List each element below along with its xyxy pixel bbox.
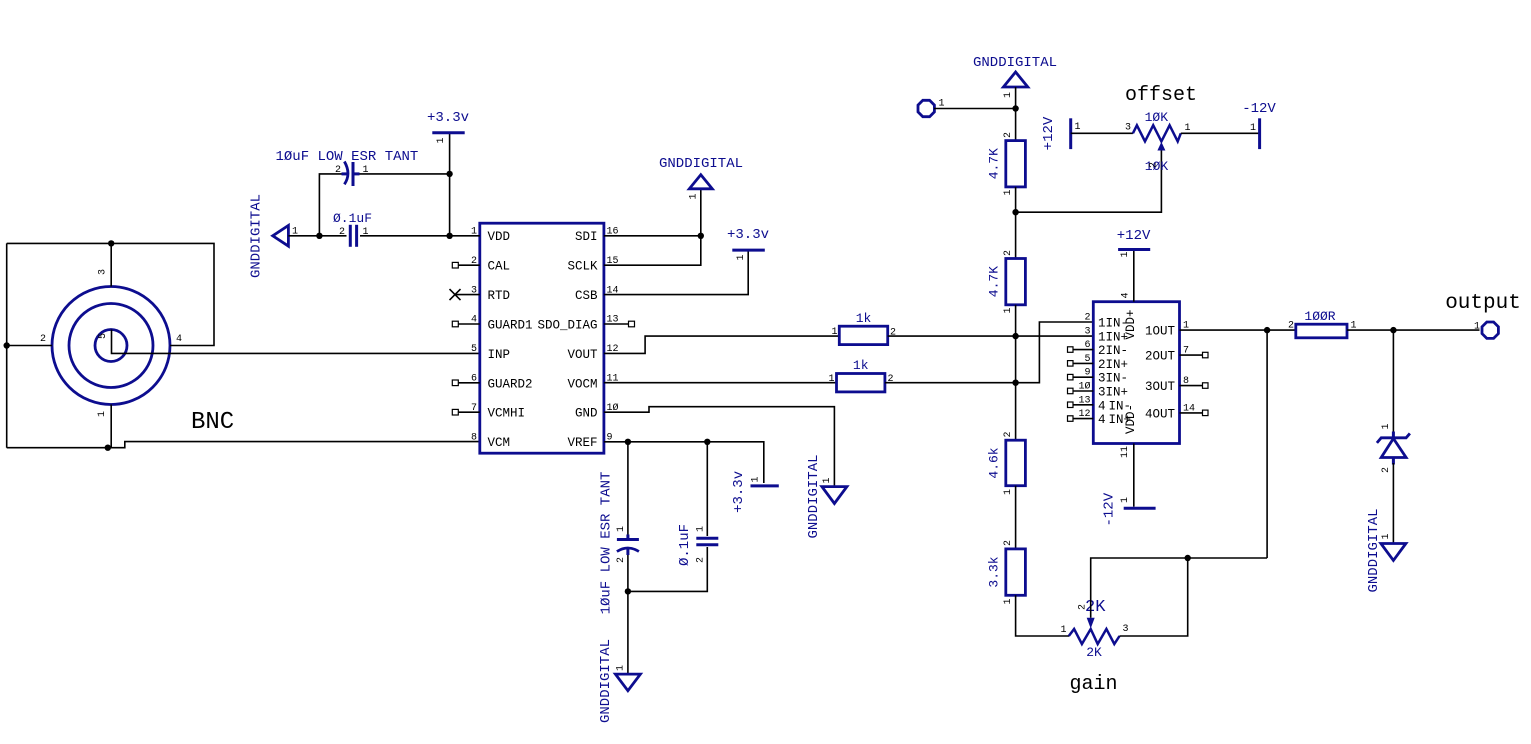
svg-text:GNDDIGITAL: GNDDIGITAL <box>806 454 822 538</box>
wire BNC left shield <box>6 243 8 447</box>
pin 13 SDO_DIAG stub <box>604 321 635 327</box>
svg-text:2: 2 <box>335 165 341 176</box>
svg-text:3IN-: 3IN- <box>1098 372 1128 386</box>
wire BNC bottom to VCM <box>7 442 480 448</box>
node junction zener tap <box>1390 327 1396 333</box>
svg-text:2: 2 <box>696 557 707 563</box>
pin 6 GUARD2 stub <box>452 380 480 386</box>
node junction offset tap <box>1012 209 1018 215</box>
svg-text:1ØuF LOW ESR TANT: 1ØuF LOW ESR TANT <box>599 472 615 615</box>
svg-text:2: 2 <box>1381 467 1392 473</box>
wire +3.3v stem <box>449 133 451 236</box>
svg-text:2: 2 <box>1288 321 1294 332</box>
ground GNDDIGITAL above SDI <box>659 156 743 200</box>
ground GNDDIGITAL left of C2 <box>249 194 299 278</box>
svg-text:VOUT: VOUT <box>567 348 598 362</box>
svg-text:GNDDIGITAL: GNDDIGITAL <box>973 55 1057 71</box>
svg-text:1: 1 <box>736 254 747 260</box>
power +3.3v at CSB <box>727 227 769 261</box>
svg-text:+12V: +12V <box>1041 116 1057 150</box>
svg-text:1ØØR: 1ØØR <box>1304 309 1335 324</box>
wire BNC pin3 <box>110 243 112 286</box>
wire SDI to gnd <box>604 189 701 236</box>
svg-text:1: 1 <box>1120 497 1131 503</box>
svg-text:offset: offset <box>1125 84 1197 107</box>
node junction feedback <box>1264 327 1270 333</box>
svg-text:4.6k: 4.6k <box>987 447 1002 478</box>
svg-text:VDD-: VDD- <box>1124 404 1138 434</box>
svg-text:GUARD1: GUARD1 <box>488 319 533 333</box>
node junction bottom shield <box>105 445 111 451</box>
pin 14 stub <box>1180 410 1209 416</box>
resistor 4.7K upper <box>987 132 1026 196</box>
wire VREF rail <box>604 442 764 483</box>
svg-text:2OUT: 2OUT <box>1145 350 1176 364</box>
svg-text:output: output <box>1445 292 1521 315</box>
svg-text:-12V: -12V <box>1102 492 1118 526</box>
svg-text:5: 5 <box>471 344 477 355</box>
svg-text:3: 3 <box>98 269 109 275</box>
pin 4 GUARD1 stub <box>452 321 480 327</box>
svg-text:2: 2 <box>1003 431 1014 437</box>
svg-text:4.7K: 4.7K <box>987 148 1002 179</box>
node junction gain feedback <box>1185 555 1191 561</box>
svg-text:1: 1 <box>616 665 627 671</box>
wire terminal to ladder <box>934 108 1016 110</box>
ground GNDDIGITAL below zener <box>1366 508 1406 592</box>
svg-text:2: 2 <box>339 227 345 238</box>
wire offset tap to wiper <box>1016 151 1162 213</box>
svg-text:1OUT: 1OUT <box>1145 325 1176 339</box>
wire C1 branch left <box>319 174 342 236</box>
resistor 4.7K lower <box>987 250 1026 314</box>
node junction C1-C2 left <box>316 233 322 239</box>
op-amp U2 body <box>1093 302 1179 444</box>
svg-text:3: 3 <box>1084 326 1090 337</box>
svg-text:1: 1 <box>1120 251 1131 257</box>
svg-text:2: 2 <box>1003 132 1014 138</box>
potentiometer offset 10K <box>1125 110 1191 174</box>
potentiometer gain 2K <box>1060 598 1128 660</box>
svg-text:1: 1 <box>1250 123 1256 134</box>
svg-text:1: 1 <box>1185 123 1191 134</box>
wire BNC pin5 center to INP <box>112 330 480 354</box>
wire 4.6k to 3.3k <box>1015 486 1017 549</box>
wire VOCM to 1k <box>604 382 837 384</box>
node junction terminal <box>1012 105 1018 111</box>
pin 10 stub <box>1068 388 1094 394</box>
wire 100R to output <box>1347 329 1480 331</box>
svg-text:2: 2 <box>616 557 627 563</box>
power -12V right of offset pot <box>1242 101 1276 149</box>
wire CSB to +3.3v <box>604 252 748 295</box>
wire VDD+ stem <box>1133 251 1135 302</box>
svg-text:1: 1 <box>436 137 447 143</box>
svg-text:1: 1 <box>363 165 369 176</box>
svg-text:CSB: CSB <box>575 289 598 303</box>
node junction +3.3v VDD <box>446 233 452 239</box>
svg-text:1: 1 <box>822 477 833 483</box>
power +12V above U2 <box>1117 228 1151 258</box>
svg-text:1: 1 <box>97 411 108 417</box>
svg-text:1ØuF LOW ESR TANT: 1ØuF LOW ESR TANT <box>276 149 419 165</box>
svg-text:VOCM: VOCM <box>567 377 597 391</box>
svg-text:2: 2 <box>1003 250 1014 256</box>
svg-text:-12V: -12V <box>1242 101 1276 117</box>
node junction left shield <box>3 342 9 348</box>
node junction VOUT net <box>1012 333 1018 339</box>
svg-text:4: 4 <box>176 334 182 345</box>
svg-text:3IN+: 3IN+ <box>1098 386 1128 400</box>
wire VOUT net to VOCM net <box>1015 336 1017 383</box>
svg-text:GND: GND <box>575 407 598 421</box>
svg-text:1: 1 <box>1381 423 1392 429</box>
power +3.3v top left <box>427 110 469 144</box>
svg-text:Ø.1uF: Ø.1uF <box>677 524 693 566</box>
svg-text:4: 4 <box>1121 292 1132 298</box>
resistor 100R <box>1288 309 1357 338</box>
pin 13 stub <box>1068 402 1094 408</box>
ground GNDDIGITAL right of C4 <box>806 454 847 538</box>
svg-text:4.7K: 4.7K <box>987 266 1002 297</box>
node junction VREF C3 <box>625 439 631 445</box>
svg-text:4: 4 <box>1098 399 1106 413</box>
svg-text:+3.3v: +3.3v <box>727 227 769 243</box>
node junction SDI-SCLK <box>698 233 704 239</box>
svg-text:1: 1 <box>1003 189 1014 195</box>
svg-text:SCLK: SCLK <box>567 260 598 274</box>
svg-text:GNDDIGITAL: GNDDIGITAL <box>598 639 614 723</box>
svg-text:1: 1 <box>1060 625 1066 636</box>
svg-text:GUARD2: GUARD2 <box>488 377 533 391</box>
node junction +3.3v C1 <box>446 171 452 177</box>
wire gnd stem to R ladder <box>1015 87 1017 141</box>
pin 7 VCMHI stub <box>452 409 480 415</box>
wire SCLK <box>604 236 701 265</box>
svg-text:INP: INP <box>488 348 511 362</box>
svg-text:SDI: SDI <box>575 230 598 244</box>
svg-text:CAL: CAL <box>488 260 511 274</box>
svg-text:VREF: VREF <box>567 436 597 450</box>
svg-text:VDD: VDD <box>488 230 511 244</box>
capacitor C2 0.1uF <box>333 211 372 247</box>
resistor 1k upper <box>831 311 896 345</box>
svg-text:1: 1 <box>1003 307 1014 313</box>
wire feedback riser <box>1266 330 1268 558</box>
svg-text:1: 1 <box>831 327 837 338</box>
svg-text:1: 1 <box>828 374 834 385</box>
svg-text:VDD+: VDD+ <box>1124 309 1138 339</box>
wire C4 branch <box>706 442 708 536</box>
wire 1OUT to 100R <box>1180 329 1296 331</box>
svg-text:2IN+: 2IN+ <box>1098 358 1128 372</box>
svg-text:2: 2 <box>890 328 896 339</box>
svg-text:11: 11 <box>1120 446 1131 458</box>
wire between 4.7K resistors <box>1015 187 1017 259</box>
wire BNC pin2 <box>7 345 52 347</box>
svg-text:SDO_DIAG: SDO_DIAG <box>537 319 597 333</box>
svg-text:VCM: VCM <box>488 436 511 450</box>
wire gnd to VDD <box>288 235 346 237</box>
svg-text:1: 1 <box>696 526 707 532</box>
svg-text:5: 5 <box>98 333 109 339</box>
wire VDD- stem <box>1133 444 1135 507</box>
svg-text:3: 3 <box>1123 624 1129 635</box>
svg-text:gain: gain <box>1069 673 1117 696</box>
svg-text:1: 1 <box>1381 533 1392 539</box>
pin 3 RTD stub with X <box>450 289 480 300</box>
node junction C3-C4 bottom <box>625 588 631 594</box>
pin 6 stub <box>1068 347 1094 353</box>
wire zener top <box>1392 330 1394 433</box>
svg-text:GNDDIGITAL: GNDDIGITAL <box>249 194 265 278</box>
svg-text:3.3k: 3.3k <box>987 556 1002 587</box>
wire C1 branch right <box>360 173 450 175</box>
svg-text:1: 1 <box>1003 489 1014 495</box>
svg-text:+3.3v: +3.3v <box>427 110 469 126</box>
wire C3 branch <box>627 442 629 535</box>
svg-text:RTD: RTD <box>488 289 511 303</box>
svg-text:2: 2 <box>40 334 46 345</box>
svg-text:1: 1 <box>689 193 700 199</box>
wire C2 to VDD pin <box>360 235 480 237</box>
wire VOCM net to 4.6k <box>1015 383 1017 441</box>
pin 9 stub <box>1068 374 1094 380</box>
terminal pad top octagon <box>918 99 945 117</box>
pin 7 stub <box>1180 352 1209 358</box>
terminal pad output octagon <box>1474 322 1498 339</box>
power -12V below U2 <box>1102 492 1156 526</box>
svg-text:8: 8 <box>471 432 477 443</box>
capacitor C3 10uF LOW ESR TANT vertical <box>599 472 639 615</box>
power +3.3v rotated at VREF <box>731 471 779 513</box>
svg-text:4: 4 <box>1098 413 1106 427</box>
wire +12V to pot <box>1071 132 1133 134</box>
power +12V left of offset pot <box>1041 116 1081 150</box>
wire gain wiper up <box>1091 558 1267 618</box>
wire zener to gnd <box>1392 463 1394 544</box>
node junction VREF C4 <box>704 439 710 445</box>
svg-text:1: 1 <box>363 227 369 238</box>
svg-text:3: 3 <box>1125 123 1131 134</box>
node junction VOCM net <box>1012 380 1018 386</box>
wire 3.3k to gain pot <box>1016 595 1069 636</box>
resistor 1k lower <box>828 358 893 392</box>
svg-text:BNC: BNC <box>191 409 234 436</box>
svg-text:2: 2 <box>1003 540 1014 546</box>
svg-text:3OUT: 3OUT <box>1145 380 1176 394</box>
svg-text:Ø.1uF: Ø.1uF <box>333 211 372 226</box>
wire gain pin3 <box>1120 558 1188 636</box>
svg-text:2: 2 <box>1148 162 1159 168</box>
wire pot to -12V <box>1181 132 1260 134</box>
svg-text:1: 1 <box>751 476 762 482</box>
svg-text:1: 1 <box>1075 122 1081 133</box>
capacitor C1 10uF LOW ESR TANT <box>276 149 419 186</box>
resistor 4.6k <box>987 431 1026 495</box>
wire to gnd bottom <box>627 591 629 674</box>
svg-text:4OUT: 4OUT <box>1145 407 1176 421</box>
pin 8 stub <box>1180 383 1209 389</box>
svg-text:+3.3v: +3.3v <box>731 471 747 513</box>
svg-text:2: 2 <box>1078 604 1089 610</box>
svg-text:1ØK: 1ØK <box>1145 110 1169 125</box>
node junction top shield <box>108 240 114 246</box>
resistor 3.3k <box>987 540 1026 605</box>
connector X1 BNC <box>52 287 170 405</box>
ground GNDDIGITAL below C3 <box>598 639 640 723</box>
svg-text:1: 1 <box>1003 92 1014 98</box>
wire BNC top shield <box>7 243 214 345</box>
pin 12 stub <box>1068 416 1094 422</box>
wire BNC pin1 <box>110 405 112 448</box>
svg-text:1: 1 <box>616 526 627 532</box>
svg-text:1: 1 <box>1474 322 1480 333</box>
svg-text:1: 1 <box>1003 598 1014 604</box>
capacitor C4 0.1uF vertical <box>677 524 718 566</box>
ground GNDDIGITAL top ladder <box>973 55 1057 98</box>
svg-text:GNDDIGITAL: GNDDIGITAL <box>659 156 743 172</box>
wire GND pin to gnd <box>604 407 835 487</box>
diode zener D1 <box>1377 423 1410 473</box>
wire 1k to 1IN- <box>885 322 1093 383</box>
pin 5 stub <box>1068 361 1094 367</box>
wire 1k to 1IN+ <box>888 335 1094 337</box>
op-amp U1 body <box>480 223 604 453</box>
wire 4.7K to VOUT net <box>1015 305 1017 336</box>
svg-text:+12V: +12V <box>1117 228 1151 244</box>
wire VOUT to 1k <box>604 336 839 353</box>
svg-text:2K: 2K <box>1086 645 1102 660</box>
svg-text:VCMHI: VCMHI <box>488 407 526 421</box>
svg-text:2IN-: 2IN- <box>1098 344 1128 358</box>
svg-text:2: 2 <box>1084 313 1090 324</box>
svg-text:1k: 1k <box>856 311 872 326</box>
svg-text:1k: 1k <box>853 358 869 373</box>
pin 2 CAL stub <box>452 262 480 268</box>
svg-text:GNDDIGITAL: GNDDIGITAL <box>1366 508 1382 592</box>
